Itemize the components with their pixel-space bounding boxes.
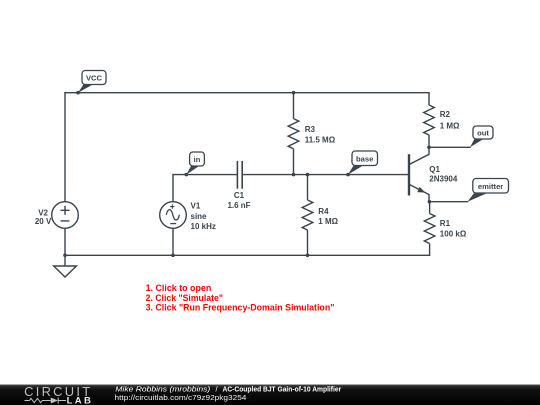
- junction: emitter node: [428, 200, 432, 204]
- svg-text:Q1: Q1: [429, 165, 440, 174]
- wire: C1 right plate to base node: [243, 174, 408, 176]
- CircuitLab logo schematic squiggle: [25, 398, 67, 404]
- junction: base flag anchor: [346, 173, 350, 177]
- junction: ground node: [63, 254, 67, 258]
- svg-text:in: in: [194, 155, 201, 164]
- resistor R3: [288, 93, 336, 175]
- svg-text:100 kΩ: 100 kΩ: [440, 230, 467, 239]
- junction: VCC flag anchor: [76, 91, 80, 95]
- svg-text:V2: V2: [38, 208, 48, 217]
- node flag emitter: [468, 179, 509, 202]
- junction: R4 bottom on ground rail: [306, 254, 310, 258]
- junction: R3 bottom on base wire: [292, 173, 296, 177]
- node flag in: [186, 152, 204, 175]
- svg-text:sine: sine: [191, 212, 208, 221]
- svg-text:Mike Robbins (mrobbins): Mike Robbins (mrobbins): [115, 384, 211, 393]
- capacitor C1: [227, 161, 250, 210]
- junction: in flag anchor: [185, 173, 189, 177]
- svg-text:VCC: VCC: [86, 73, 103, 82]
- footer bar: [0, 385, 540, 405]
- ground: [54, 255, 77, 277]
- junction: R3 top on VCC rail: [292, 91, 296, 95]
- svg-text:3. Click "Run Frequency-Domain: 3. Click "Run Frequency-Domain Simulatio…: [146, 302, 335, 313]
- svg-text:1.6 nF: 1.6 nF: [227, 201, 250, 210]
- svg-text:20 V: 20 V: [35, 217, 52, 226]
- node flag out: [470, 126, 493, 147]
- junction: R4 top on base wire: [306, 173, 310, 177]
- svg-text:R2: R2: [440, 110, 451, 119]
- resistor R4: [302, 175, 338, 256]
- svg-text:11.5 MΩ: 11.5 MΩ: [305, 136, 336, 145]
- wire: VCC top rail: [65, 92, 429, 94]
- svg-text:base: base: [356, 154, 373, 163]
- wire: bottom ground rail: [65, 254, 430, 256]
- svg-text:1 MΩ: 1 MΩ: [440, 121, 460, 130]
- wire: emitter node to emitter flag: [429, 201, 467, 203]
- resistor R2: [424, 93, 460, 148]
- svg-text:emitter: emitter: [478, 182, 503, 191]
- svg-text:http://circuitlab.com/c79z92pk: http://circuitlab.com/c79z92pkg3254: [115, 393, 247, 402]
- svg-text:R1: R1: [440, 219, 451, 228]
- junction: V1 bottom on ground rail: [171, 254, 175, 258]
- resistor R1: [424, 202, 467, 256]
- wire: collector node to out flag: [429, 146, 470, 148]
- svg-text:2N3904: 2N3904: [429, 175, 458, 184]
- node flag base: [348, 151, 378, 175]
- wire: input node to C1 left plate: [173, 174, 237, 176]
- wire: V1 top to input node: [172, 175, 174, 202]
- svg-text:R4: R4: [318, 207, 329, 216]
- wire: V2 bottom to ground rail: [64, 228, 66, 255]
- svg-text:1 MΩ: 1 MΩ: [318, 217, 338, 226]
- wire: V1 bottom to ground rail: [172, 228, 174, 255]
- junction: collector node: [427, 146, 431, 150]
- svg-text:V1: V1: [191, 202, 201, 211]
- svg-text:LAB: LAB: [67, 395, 91, 405]
- svg-text:C1: C1: [234, 191, 245, 200]
- transistor Q1 2N3904: [409, 147, 458, 201]
- svg-text:out: out: [477, 128, 489, 137]
- svg-text:R3: R3: [305, 125, 316, 134]
- voltage source V1: [160, 202, 216, 231]
- node flag VCC: [78, 71, 106, 93]
- wire: left rail from top rail to V2: [64, 93, 66, 202]
- note: red instruction text: [146, 282, 335, 313]
- voltage source V2: [35, 202, 78, 229]
- svg-text:AC-Coupled BJT Gain-of-10 Ampl: AC-Coupled BJT Gain-of-10 Amplifier: [223, 384, 342, 393]
- svg-text:10 kHz: 10 kHz: [191, 222, 216, 231]
